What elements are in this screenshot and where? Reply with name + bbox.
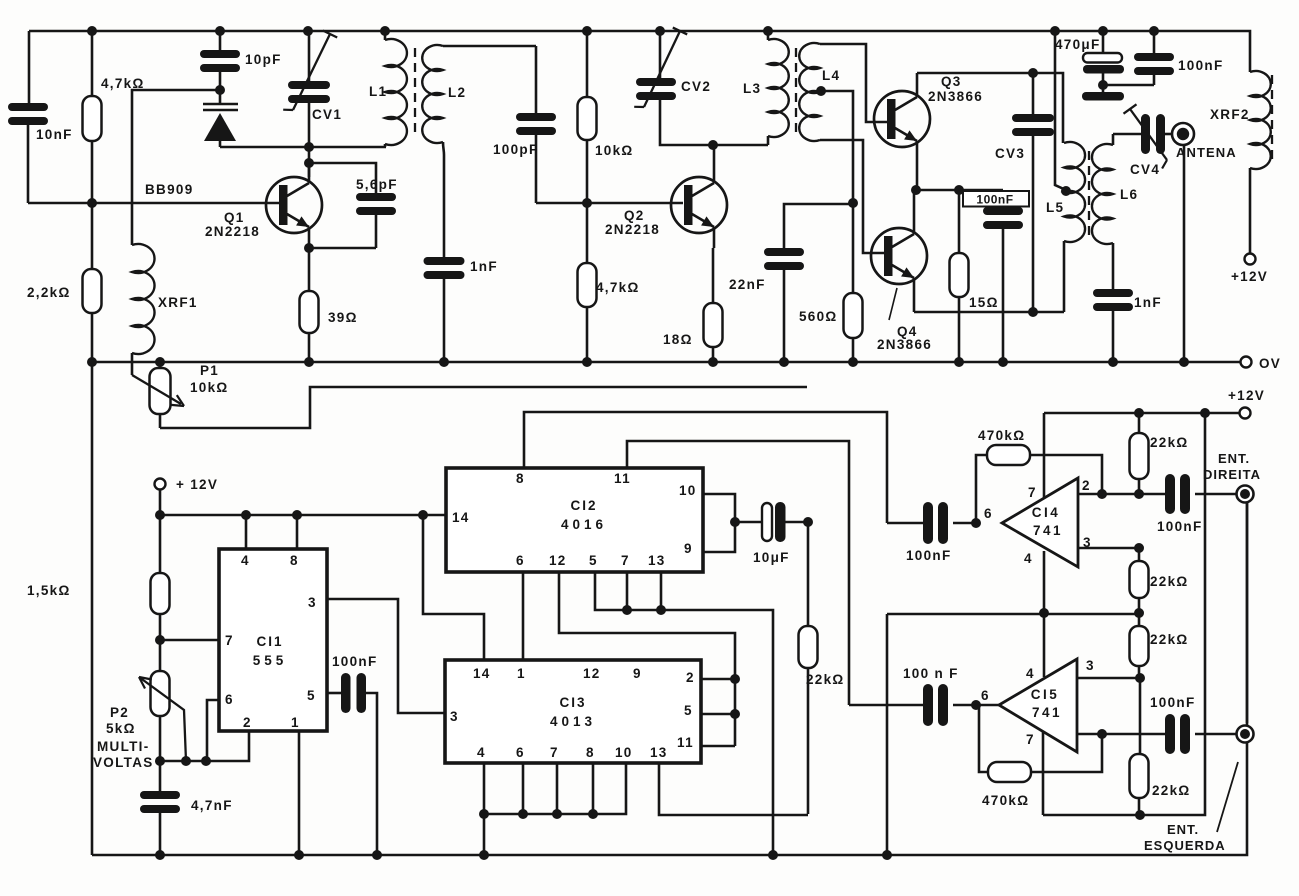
label CI1 555 xyxy=(253,653,288,668)
node 22k c gnd xyxy=(1134,608,1144,618)
label 1nF osc xyxy=(470,259,498,274)
transistor Q3 2N3866 xyxy=(874,73,930,190)
svg-text:100nF: 100nF xyxy=(1178,58,1224,73)
wire L4 top to Q3 base xyxy=(820,44,888,122)
svg-text:4: 4 xyxy=(1024,551,1033,566)
label 470k CI5 xyxy=(982,793,1029,808)
svg-text:CI4: CI4 xyxy=(1032,505,1061,520)
svg-text:CI3: CI3 xyxy=(559,695,586,710)
node pin7 gnd xyxy=(622,605,632,615)
wire 0V bus xyxy=(92,361,1240,364)
svg-text:10pF: 10pF xyxy=(245,52,282,67)
resistor 2,2k xyxy=(83,203,102,362)
resistor 470k CI4 xyxy=(976,445,1102,523)
label Q3 type xyxy=(928,89,983,104)
svg-text:P2: P2 xyxy=(110,705,129,720)
svg-text:10μF: 10μF xyxy=(753,550,790,565)
label 22nF xyxy=(729,277,766,292)
capacitor 22nF xyxy=(764,204,853,362)
wire CI3 gnd pins xyxy=(484,763,626,855)
ic CI1 555 xyxy=(219,549,327,731)
svg-text:18Ω: 18Ω xyxy=(663,332,693,347)
label ENT esq2 xyxy=(1144,838,1226,853)
wire CI2.10 xyxy=(703,494,735,552)
label L1 xyxy=(369,84,387,99)
svg-text:Q2: Q2 xyxy=(624,208,645,223)
label P1 xyxy=(200,363,219,378)
label Q1 xyxy=(224,210,245,225)
terminal +12V CI1 xyxy=(155,477,219,492)
node rail pin14 xyxy=(418,510,428,520)
wire CI2 5-7-13 gnd xyxy=(595,572,773,855)
svg-text:CV2: CV2 xyxy=(681,79,711,94)
resistor 15R xyxy=(950,190,969,362)
svg-text:5: 5 xyxy=(589,553,598,568)
svg-text:ESQUERDA: ESQUERDA xyxy=(1144,838,1226,853)
label 5,6pF xyxy=(356,177,398,192)
wire L4 tap to Q4 base col xyxy=(821,91,853,293)
label CI1 name xyxy=(256,634,283,649)
plate below 470uF xyxy=(1082,92,1124,101)
wire pin1 stub xyxy=(298,731,301,855)
wire +12 line 815 xyxy=(1043,413,1205,815)
wire left frame xyxy=(91,362,94,855)
svg-text:MULTI-: MULTI- xyxy=(97,739,150,754)
transistor Q2 2N2218 xyxy=(671,145,727,248)
label 100pF xyxy=(493,142,539,157)
capacitor 100nF CI1 xyxy=(327,673,377,855)
node bus/4k7 xyxy=(87,26,97,36)
svg-text:4,7nF: 4,7nF xyxy=(191,798,233,813)
inductor XRF1 xyxy=(132,244,155,375)
capacitor CV3 xyxy=(1012,73,1054,312)
label CI5 pin7 xyxy=(1026,732,1035,747)
node CI5 in xyxy=(971,700,981,710)
label 4,7k xyxy=(101,76,145,91)
ic CI3 4013 xyxy=(445,660,701,763)
leader esquerda xyxy=(1217,762,1238,832)
svg-text:CI2: CI2 xyxy=(570,498,597,513)
svg-text:ANTENA: ANTENA xyxy=(1176,145,1237,160)
node rail p2col xyxy=(155,510,165,520)
svg-text:Q3: Q3 xyxy=(941,74,962,89)
resistor 22k B xyxy=(1130,413,1149,494)
label P2 multi xyxy=(97,739,150,754)
wire CI2.14 to CI3.14 xyxy=(423,515,484,660)
inductor XRF2 xyxy=(1250,71,1271,253)
node p2 761 xyxy=(155,756,165,766)
svg-text:15Ω: 15Ω xyxy=(969,295,999,310)
label 10nF xyxy=(36,127,73,142)
svg-text:L5: L5 xyxy=(1046,200,1064,215)
potentiometer P2 xyxy=(139,671,186,761)
node Q3e/Q4c xyxy=(911,185,921,195)
node 10pF/BB909/XRF1 xyxy=(215,85,225,95)
node L5 tap xyxy=(1061,186,1071,196)
node rail 1205 xyxy=(1200,408,1210,418)
wire bottom bus xyxy=(92,503,1247,855)
label 470k CI4 xyxy=(978,428,1025,443)
node bb 773 xyxy=(768,850,778,860)
label BB909 xyxy=(145,182,194,197)
node pin2 470k xyxy=(1097,489,1107,499)
label 10k xyxy=(595,143,634,158)
label CI3 pin3 xyxy=(450,709,459,724)
svg-text:12: 12 xyxy=(583,666,601,681)
svg-text:ENT.: ENT. xyxy=(1167,822,1199,837)
node bb ci3 xyxy=(479,850,489,860)
capacitor 1nF out xyxy=(1093,289,1133,362)
svg-text:+12V: +12V xyxy=(1228,388,1265,403)
svg-text:VOLTAS: VOLTAS xyxy=(93,755,154,770)
label CI3 pin9 xyxy=(633,666,642,681)
svg-text:13: 13 xyxy=(650,745,668,760)
svg-text:10: 10 xyxy=(679,483,697,498)
label 10uF xyxy=(753,550,790,565)
svg-text:100pF: 100pF xyxy=(493,142,539,157)
label CI4 pin7 xyxy=(1028,485,1037,500)
svg-text:11: 11 xyxy=(614,471,631,486)
node tank bottom xyxy=(304,142,314,152)
node pin4 gnd xyxy=(1039,608,1049,618)
label 2,2k xyxy=(27,285,71,300)
svg-text:100nF: 100nF xyxy=(1150,695,1196,710)
svg-text:22kΩ: 22kΩ xyxy=(1152,783,1191,798)
label 100nF mid box xyxy=(963,191,1029,207)
label Q3 xyxy=(941,74,962,89)
svg-text:3: 3 xyxy=(1086,658,1095,673)
wire Q2 base line xyxy=(536,202,683,205)
node 15R top xyxy=(954,185,964,195)
svg-text:3: 3 xyxy=(450,709,459,724)
svg-text:100 n F: 100 n F xyxy=(903,666,959,681)
label CI3 pin11 xyxy=(677,735,694,750)
label CI2 pin5 xyxy=(589,553,598,568)
capacitor 5,6pF xyxy=(356,193,396,248)
resistor 39R xyxy=(300,248,319,362)
svg-text:555: 555 xyxy=(253,653,288,668)
node pin2/470k xyxy=(1097,729,1107,739)
label CI5 name xyxy=(1031,687,1060,702)
label CI2 pin6 xyxy=(516,553,525,568)
label CI4 pin4 xyxy=(1024,551,1033,566)
svg-text:10nF: 10nF xyxy=(36,127,73,142)
core L3/L4 xyxy=(795,48,797,137)
label 22k E xyxy=(1152,783,1191,798)
wire CI2.6 to CI3.1 xyxy=(522,572,525,660)
node bus 560R xyxy=(848,357,858,367)
label 100nF dir xyxy=(1157,519,1203,534)
svg-text:1,5kΩ: 1,5kΩ xyxy=(27,583,71,598)
svg-text:CI1: CI1 xyxy=(256,634,283,649)
svg-text:2: 2 xyxy=(1082,478,1091,493)
svg-text:10: 10 xyxy=(615,745,633,760)
svg-text:470kΩ: 470kΩ xyxy=(982,793,1029,808)
wire gnd line 613 xyxy=(887,614,1139,855)
label Q2 xyxy=(624,208,645,223)
inductor L4 xyxy=(799,43,820,141)
label 22k D xyxy=(1150,632,1189,647)
svg-text:4013: 4013 xyxy=(550,714,596,729)
node 5p6 top xyxy=(304,158,314,168)
terminal +12V lower xyxy=(1228,388,1265,419)
wire CI4 pin3 line xyxy=(1078,547,1139,550)
label CI2 pin11 xyxy=(614,471,631,486)
capacitor 4,7nF xyxy=(140,761,180,855)
svg-text:7: 7 xyxy=(225,633,234,648)
svg-text:22nF: 22nF xyxy=(729,277,766,292)
node bb 4,7n xyxy=(155,850,165,860)
wire P1 out xyxy=(160,387,807,428)
wire emitter node line xyxy=(917,189,1003,192)
node bus/L5feed xyxy=(1050,26,1060,36)
node rail pin8 xyxy=(292,510,302,520)
label CI3 pin14 xyxy=(473,666,491,681)
svg-text:BB909: BB909 xyxy=(145,182,194,197)
wire 22k E col xyxy=(1139,678,1142,754)
label CI3 pin4 xyxy=(477,745,486,760)
svg-text:39Ω: 39Ω xyxy=(328,310,358,325)
label P2 xyxy=(110,705,129,720)
label CI2 pin14 xyxy=(452,510,470,525)
capacitor 100nF dir xyxy=(1165,474,1237,514)
resistor 4,7k xyxy=(83,31,102,203)
wire CV2 bottom xyxy=(660,100,768,145)
svg-text:7: 7 xyxy=(550,745,559,760)
svg-text:12: 12 xyxy=(549,553,567,568)
label CI3 pin6 xyxy=(516,745,525,760)
capacitor 10pF xyxy=(200,31,240,104)
node bus 39R xyxy=(304,357,314,367)
label CV4 xyxy=(1130,162,1160,177)
terminal 0V xyxy=(1241,356,1282,371)
svg-text:DIREITA: DIREITA xyxy=(1203,467,1261,482)
svg-text:L1: L1 xyxy=(369,84,387,99)
label 100nF esq xyxy=(1150,695,1196,710)
label XRF2 xyxy=(1210,107,1250,122)
wire CI5 pin7 stub xyxy=(1042,731,1045,815)
svg-text:741: 741 xyxy=(1032,705,1062,720)
node pin7 node xyxy=(155,635,165,645)
svg-text:6: 6 xyxy=(516,553,525,568)
wire CI2.11 line xyxy=(627,441,849,705)
node tap line / 22nF xyxy=(848,198,858,208)
node bus 22nF xyxy=(779,357,789,367)
node CI4 in xyxy=(971,518,981,528)
wire L4 bottom to Q4 base xyxy=(820,140,884,253)
label CI3 pin2 xyxy=(686,670,695,685)
label CI3 pin8 xyxy=(586,745,595,760)
svg-text:L4: L4 xyxy=(822,68,840,83)
resistor 10k xyxy=(578,31,597,203)
inductor L3 xyxy=(768,31,789,145)
label 100nF CI1 xyxy=(332,654,378,669)
jack ENT DIREITA xyxy=(1237,486,1254,503)
wire CI5 pin4 stub xyxy=(1043,613,1046,677)
svg-text:100nF: 100nF xyxy=(976,193,1013,207)
node bus 4k7b xyxy=(582,357,592,367)
label CI2 4016 xyxy=(561,517,607,532)
label CI1 pin4 xyxy=(241,553,250,568)
label Q4 type xyxy=(877,337,932,352)
label L2 xyxy=(448,85,466,100)
terminal +12V top xyxy=(1231,254,1268,285)
label CI3 4013 xyxy=(550,714,596,729)
label L5 xyxy=(1046,200,1064,215)
label 22k B xyxy=(1150,435,1189,450)
label 100nF CI5 in xyxy=(903,666,959,681)
capacitor 10nF xyxy=(8,103,48,203)
label CV3 xyxy=(995,146,1025,161)
label P2 val xyxy=(106,721,136,736)
node 10uF left xyxy=(730,517,740,527)
label L3 xyxy=(743,81,761,96)
wire Q1 base line xyxy=(28,202,280,205)
label CV2 xyxy=(681,79,711,94)
node wiper 761 xyxy=(181,756,191,766)
transistor Q4 2N3866 xyxy=(871,190,927,312)
resistor 560R xyxy=(844,293,863,362)
node bus/CV1 xyxy=(303,26,313,36)
label 39R xyxy=(328,310,358,325)
svg-text:2,2kΩ: 2,2kΩ xyxy=(27,285,71,300)
svg-text:ENT.: ENT. xyxy=(1218,451,1250,466)
wire top bus left drop xyxy=(28,31,31,103)
svg-text:CI5: CI5 xyxy=(1031,687,1060,702)
node collector/CV3 xyxy=(1028,68,1038,78)
label CI4 pin2 xyxy=(1082,478,1091,493)
node Q2 collector xyxy=(708,140,718,150)
label Q2 type xyxy=(605,222,660,237)
label CI3 name xyxy=(559,695,586,710)
node bus/L1 xyxy=(380,26,390,36)
label CI2 pin13 xyxy=(648,553,666,568)
node bus antenna xyxy=(1179,357,1189,367)
label CV1 xyxy=(312,107,342,122)
wire varicap bottom to tank xyxy=(220,146,386,149)
label L4 xyxy=(822,68,840,83)
wire pin3 CI1 to CI3 xyxy=(327,599,445,713)
node bus/10pF xyxy=(215,26,225,36)
resistor 22k A xyxy=(799,522,818,814)
label CI1 pin8 xyxy=(290,553,299,568)
svg-text:10kΩ: 10kΩ xyxy=(595,143,634,158)
label XRF1 xyxy=(158,295,198,310)
node L4 tap xyxy=(816,86,826,96)
wire L5 feed from bus xyxy=(1055,31,1066,190)
svg-text:100nF: 100nF xyxy=(906,548,952,563)
resistor 4,7k Q2 xyxy=(578,203,597,362)
capacitor 100nF esq xyxy=(1165,714,1237,754)
label CI2 pin8 xyxy=(516,471,525,486)
node bus 2k2 xyxy=(87,357,97,367)
label ENT esq1 xyxy=(1167,822,1199,837)
svg-text:XRF2: XRF2 xyxy=(1210,107,1250,122)
jack ANTENA xyxy=(1172,123,1194,362)
node bus/470u xyxy=(1098,26,1108,36)
node 10k/base xyxy=(582,198,592,208)
wire pin7 stub2 xyxy=(626,572,629,610)
wire Q3 collector line xyxy=(917,73,1063,143)
opamp CI4 741 xyxy=(1002,478,1078,567)
label CI1 pin2 xyxy=(243,715,252,730)
svg-text:CV1: CV1 xyxy=(312,107,342,122)
wire CI4 pin4 stub xyxy=(1043,551,1046,613)
label CI4 name xyxy=(1032,505,1061,520)
node emitter/5p6 xyxy=(304,243,314,253)
svg-text:3: 3 xyxy=(308,595,317,610)
svg-text:XRF1: XRF1 xyxy=(158,295,198,310)
svg-text:2: 2 xyxy=(243,715,252,730)
svg-text:1nF: 1nF xyxy=(1134,295,1162,310)
core L1/L2 xyxy=(414,48,416,138)
label 18R xyxy=(663,332,693,347)
wire CI2.8 line xyxy=(524,412,887,523)
wire CI4 pin2 line xyxy=(1078,493,1165,496)
svg-text:470kΩ: 470kΩ xyxy=(978,428,1025,443)
svg-text:11: 11 xyxy=(677,735,694,750)
label CI1 pin6 xyxy=(225,692,234,707)
core XRF2 xyxy=(1271,75,1273,165)
label 470uF xyxy=(1055,37,1101,52)
svg-text:Q1: Q1 xyxy=(224,210,245,225)
svg-text:22kΩ: 22kΩ xyxy=(1150,574,1189,589)
label CI3 pin1 xyxy=(517,666,526,681)
svg-text:4: 4 xyxy=(241,553,250,568)
wire +12V top bus xyxy=(29,31,1250,72)
label CI3 pin12 xyxy=(583,666,601,681)
svg-text:7: 7 xyxy=(1028,485,1037,500)
transistor Q1 2N2218 xyxy=(266,163,322,248)
svg-text:2N3866: 2N3866 xyxy=(928,89,983,104)
node g7 xyxy=(552,809,562,819)
capacitor 100pF xyxy=(516,46,556,203)
wire pin8 stub xyxy=(296,515,299,549)
label CI2 pin9 xyxy=(684,541,693,556)
node base-line/4k7 xyxy=(87,198,97,208)
svg-text:CV4: CV4 xyxy=(1130,162,1160,177)
inductor L1 xyxy=(385,31,407,147)
svg-text:741: 741 xyxy=(1033,523,1063,538)
node bus 1nF out xyxy=(1108,357,1118,367)
capacitor 100nF mid xyxy=(983,190,1023,362)
svg-text:L3: L3 xyxy=(743,81,761,96)
svg-text:22kΩ: 22kΩ xyxy=(806,672,845,687)
wire CI5 pin2 line xyxy=(1077,733,1165,736)
capacitor 470uF electrolytic xyxy=(1083,31,1124,92)
label 15R xyxy=(969,295,999,310)
label 560R xyxy=(799,309,838,324)
resistor 22k D xyxy=(1130,613,1149,678)
svg-text:100nF: 100nF xyxy=(1157,519,1203,534)
resistor 22k C xyxy=(1130,548,1149,613)
svg-text:2N2218: 2N2218 xyxy=(205,224,260,239)
capacitor 100nF CI4 in xyxy=(887,502,976,544)
label 4,7k Q2 xyxy=(596,280,640,295)
label CI4 741 xyxy=(1033,523,1063,538)
wire +12 rail CI1 xyxy=(160,489,446,515)
svg-text:6: 6 xyxy=(516,745,525,760)
svg-text:L2: L2 xyxy=(448,85,466,100)
wire 5,6pF bottom xyxy=(309,247,376,250)
node rail pin4 xyxy=(241,510,251,520)
label L6 xyxy=(1120,187,1138,202)
node rail 22k xyxy=(1134,408,1144,418)
node bb 100n xyxy=(372,850,382,860)
svg-text:100nF: 100nF xyxy=(332,654,378,669)
svg-text:8: 8 xyxy=(516,471,525,486)
svg-text:P1: P1 xyxy=(200,363,219,378)
